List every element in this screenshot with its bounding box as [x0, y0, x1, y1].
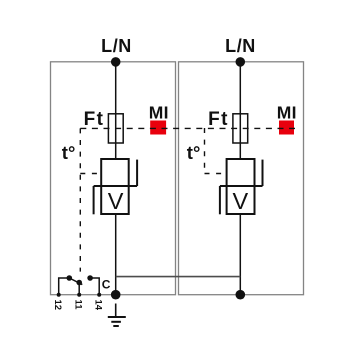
svg-text:MI: MI — [277, 103, 297, 123]
fuse Ft module 2 — [233, 114, 248, 143]
ground stem — [115, 304, 117, 318]
ground bar 3 — [113, 325, 119, 327]
changeover contact: terminal 12 wire — [59, 278, 70, 295]
terminal node L/N module 1 — [111, 57, 121, 67]
contact dot NO (14 side) — [87, 275, 93, 281]
svg-text:L/N: L/N — [101, 36, 132, 56]
svg-text:11: 11 — [73, 300, 84, 311]
contact dot NC (12 side) — [67, 275, 73, 281]
terminal dot 11 — [77, 293, 81, 297]
terminal dot 14 — [97, 293, 101, 297]
svg-text:Ft: Ft — [208, 109, 229, 130]
varistor with thermal disconnector module 1 — [94, 159, 138, 214]
changeover contact: terminal 14 wire — [90, 278, 99, 295]
module 2 enclosure box — [179, 62, 304, 295]
terminal dot 12 — [57, 293, 61, 297]
changeover contact: terminal 11 wire — [78, 283, 80, 295]
varistor with thermal disconnector module 2 — [220, 159, 263, 214]
svg-text:14: 14 — [93, 300, 104, 311]
dashed stub to disconnector module 1 — [80, 173, 101, 175]
svg-text:V: V — [108, 188, 124, 214]
svg-text:L/N: L/N — [225, 36, 256, 56]
indicator MI red square module 2 — [279, 121, 294, 135]
svg-text:t°: t° — [62, 142, 76, 163]
terminal node L/N module 2 — [236, 57, 246, 67]
wire module 2 vertical top — [239, 62, 241, 159]
wire module 1 vertical top — [115, 62, 117, 159]
dashed signal line horizontal (MI line) — [80, 127, 295, 129]
svg-text:t°: t° — [187, 142, 201, 163]
svg-text:MI: MI — [149, 103, 169, 123]
changeover contact: moving arm — [69, 278, 82, 285]
dashed thermal line vertical module 2 — [204, 128, 206, 174]
svg-text:12: 12 — [52, 300, 63, 311]
ground bar 2 — [111, 321, 121, 323]
wire module 2 vertical bottom — [239, 214, 241, 295]
contact pivot dot (11) — [76, 280, 82, 286]
wire cross-connection between modules — [116, 276, 241, 278]
dashed stub to disconnector module 2 — [205, 173, 227, 175]
module 1 enclosure box — [51, 62, 176, 295]
terminal node PE module 2 — [236, 290, 246, 300]
svg-text:V: V — [232, 188, 248, 214]
svg-text:C: C — [102, 277, 111, 291]
terminal node PE module 1 — [111, 290, 121, 300]
wire module 1 vertical bottom — [115, 214, 117, 295]
svg-text:Ft: Ft — [84, 109, 105, 130]
fuse Ft module 1 — [108, 114, 123, 143]
indicator MI red square module 1 — [150, 121, 166, 135]
dashed thermal line vertical module 1 — [79, 128, 81, 271]
ground bar 1 — [108, 316, 126, 318]
